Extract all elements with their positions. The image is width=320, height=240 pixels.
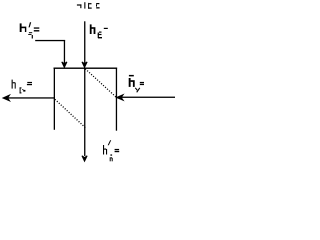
wire center vertical through box to bottom arrow — [84, 68, 85, 156]
node top-label fragment 3 (cut-off text) — [88, 3, 92, 9]
node top-label fragment 1 (cut-off text) — [77, 4, 82, 8]
node top-label fragment 4 (cut-off text) — [96, 3, 100, 9]
dotted diagonal from left edge to center line — [55, 99, 85, 127]
label h_e- (top middle) — [90, 24, 108, 38]
label h_[v= (left) — [12, 80, 32, 94]
label hbar_y= (right) — [129, 75, 144, 92]
box (open-bottom rectangle) top edge — [54, 68, 118, 69]
wire right in-arrow (from image edge) — [121, 97, 176, 98]
label h'_s= (top left) — [20, 22, 40, 38]
arrowhead down into box top (left) — [62, 62, 67, 67]
node top-label fragment 2 (cut-off text) — [84, 2, 85, 8]
arrowhead down into box top (center) — [82, 62, 87, 67]
arrowhead left into right edge — [117, 95, 123, 100]
wire from h'_s to box (L-shaped with down arrow) — [35, 40, 65, 64]
label h'_n= (bottom) — [103, 140, 119, 161]
wire left out-arrow — [6, 97, 54, 98]
box right edge — [116, 68, 117, 131]
wire center vertical from top into box — [84, 21, 85, 63]
arrowhead left (exit) — [3, 95, 9, 101]
dotted diagonal from top arrow junction to right edge — [85, 69, 116, 97]
arrowhead down at bottom — [82, 156, 87, 161]
box left edge — [54, 68, 55, 130]
